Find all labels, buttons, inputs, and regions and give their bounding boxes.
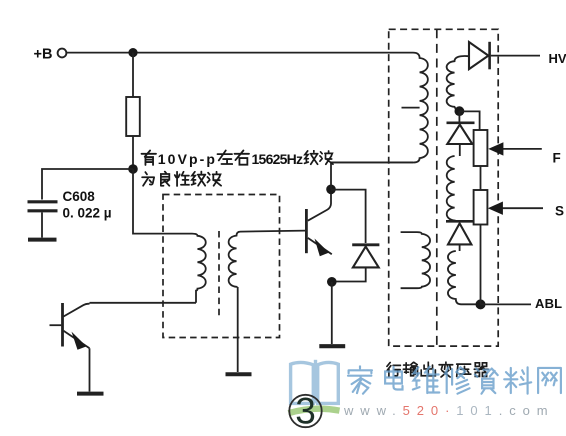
wire resistor to ripple node xyxy=(132,136,134,169)
flyback HV winding section 1 xyxy=(447,56,469,110)
svg-text:15625Hz: 15625Hz xyxy=(252,151,304,167)
wire +B rail xyxy=(67,52,413,54)
ground (driver secondary) xyxy=(226,372,252,376)
F wiper arrow xyxy=(501,148,542,150)
rectifier diode HV xyxy=(488,42,491,70)
S wiper arrow xyxy=(501,207,543,209)
flyback heater winding xyxy=(401,232,430,288)
focus diode D3 xyxy=(446,220,474,223)
transistor Q1 (driver) xyxy=(61,303,64,347)
ground (C608) xyxy=(28,238,57,242)
resistor R (B+ feed) xyxy=(126,97,140,136)
capacitor C608 xyxy=(28,202,58,211)
page number 3 circled xyxy=(289,395,321,427)
wire emitter node to ground xyxy=(331,282,333,344)
svg-text:0. 022 µ: 0. 022 µ xyxy=(63,206,112,221)
svg-text:www.520·101.com: www.520·101.com xyxy=(343,403,554,418)
wire ripple node to capacitor C608 xyxy=(42,169,133,200)
watermark green underline swoosh xyxy=(289,409,340,413)
junction dot ripple node xyxy=(128,164,138,174)
flyback transformer box xyxy=(389,29,499,346)
focus potentiometer F xyxy=(474,130,488,166)
transistor Q2 (horizontal output) xyxy=(305,209,308,253)
junction dot Q2 collector node xyxy=(326,185,336,195)
ground (Q2 emitter) xyxy=(319,344,345,348)
svg-text:HV: HV xyxy=(549,51,566,66)
wire driver secondary top to Q2 base xyxy=(241,231,306,232)
wire junction to resistor xyxy=(132,53,134,97)
svg-text:ABL: ABL xyxy=(535,296,562,311)
flyback winding section 3 xyxy=(448,251,481,304)
wire ABL xyxy=(481,303,532,305)
focus diode D2 xyxy=(447,122,475,125)
junction dot HV winding tap xyxy=(455,106,465,116)
driver transformer T1 box xyxy=(163,195,280,338)
wire F pot to S pot xyxy=(480,166,482,190)
watermark book logo xyxy=(291,360,339,404)
wire Q1 emitter to ground xyxy=(89,348,91,391)
annotation text line 1: 有10Vp-p左右15625Hz纹波 xyxy=(141,150,156,165)
junction dot ABL node xyxy=(476,299,486,309)
ground (Q1 emitter) xyxy=(77,392,104,396)
wire collector node up to flyback primary xyxy=(331,162,413,189)
svg-text:C608: C608 xyxy=(63,189,96,204)
screen potentiometer S xyxy=(474,190,488,225)
annotation text line 2: 为良性纹波 xyxy=(142,172,154,186)
svg-text:3: 3 xyxy=(295,391,316,432)
wire collector node to damper diode xyxy=(331,190,366,243)
wire S pot to ABL node xyxy=(480,225,482,305)
wire tap to focus pot xyxy=(459,111,479,130)
junction dot on +B rail xyxy=(128,48,137,57)
flyback HV winding section 2 xyxy=(447,156,455,221)
flyback core xyxy=(436,29,438,346)
svg-text:S: S xyxy=(555,204,564,219)
driver transformer primary winding xyxy=(192,234,206,303)
label 行输出变压器 (horizontal output transformer) xyxy=(387,362,488,377)
damper diode D1 xyxy=(352,243,379,246)
junction dot Q2 emitter node xyxy=(327,277,337,287)
watermark 家电维修资料网 xyxy=(348,366,561,394)
wire ripple node to driver transformer primary xyxy=(133,169,192,234)
svg-text:+B: +B xyxy=(34,47,53,63)
flyback primary winding xyxy=(331,53,428,163)
node +B terminal xyxy=(58,49,67,58)
svg-text:F: F xyxy=(553,151,561,166)
driver transformer secondary winding xyxy=(229,232,241,287)
wire driver secondary bottom to ground xyxy=(237,287,239,372)
svg-text:10Vp-p: 10Vp-p xyxy=(158,151,217,167)
wire damper anode to emitter node xyxy=(337,267,366,281)
wire driver primary to Q1 collector xyxy=(90,302,197,304)
driver transformer core xyxy=(218,231,220,316)
wire HV xyxy=(491,55,540,57)
flyback primary tap xyxy=(402,107,420,109)
